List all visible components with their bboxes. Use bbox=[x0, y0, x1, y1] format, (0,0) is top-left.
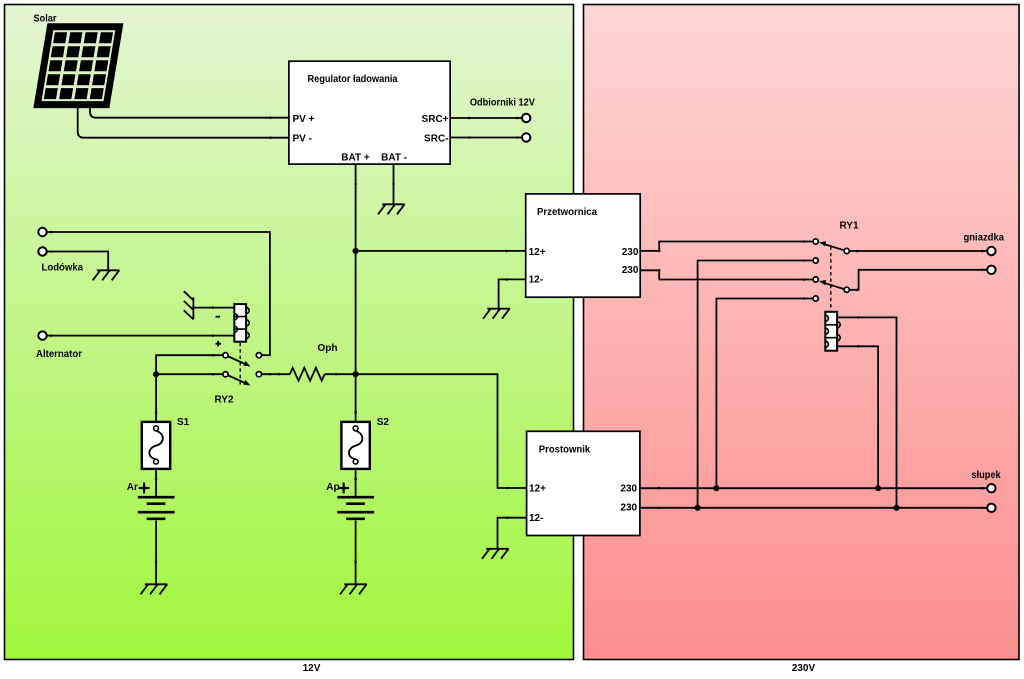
wire RY2 pivot top bbox=[156, 355, 223, 374]
ground under battery Ar bbox=[141, 584, 168, 594]
wire RY1 coil top to bus2 bbox=[837, 317, 896, 507]
svg-text:Ar: Ar bbox=[127, 482, 138, 493]
svg-text:RY1: RY1 bbox=[839, 220, 859, 231]
ground Prostownik 12- bbox=[482, 549, 509, 559]
svg-text:230: 230 bbox=[622, 247, 639, 258]
terminal slupek 1 bbox=[987, 484, 995, 492]
junction row4 on bus1 bbox=[713, 485, 719, 491]
svg-text:SRC+: SRC+ bbox=[422, 114, 449, 125]
svg-text:Regulator ładowania: Regulator ładowania bbox=[308, 74, 398, 85]
ground at RY2 coil (rotated) bbox=[184, 291, 194, 319]
svg-text:BAT +: BAT + bbox=[341, 152, 370, 163]
wire Lodowka minus to ground bbox=[47, 252, 108, 271]
dashed link RY2 bbox=[239, 343, 241, 385]
pin dots bbox=[50, 116, 984, 563]
wire bus 230 bottom to slupek bbox=[640, 507, 987, 509]
battery Ar bbox=[138, 497, 175, 519]
svg-text:S1: S1 bbox=[177, 417, 190, 428]
RY2 switch pole 2 bbox=[223, 372, 262, 386]
plus sign Ar bbox=[139, 483, 150, 494]
junction BAT+ to Przetwornica bbox=[353, 248, 359, 254]
wire PV- bbox=[78, 106, 289, 138]
svg-text:230V: 230V bbox=[792, 663, 816, 674]
svg-text:SRC-: SRC- bbox=[424, 133, 448, 144]
svg-text:BAT -: BAT - bbox=[381, 152, 407, 163]
svg-text:12+: 12+ bbox=[529, 247, 546, 258]
dashed link RY1 bbox=[830, 247, 832, 312]
ground under battery Ap bbox=[340, 584, 367, 594]
wire SRC+ to Odbiorniki bbox=[450, 117, 522, 119]
wire BAT+ vertical bbox=[355, 164, 357, 422]
junction RY2 pivots bbox=[153, 371, 159, 377]
solar panel PV1 bbox=[33, 23, 123, 108]
svg-text:12V: 12V bbox=[303, 663, 321, 674]
resistor Oph bbox=[290, 368, 325, 381]
RY1 contact row4 bbox=[813, 296, 818, 301]
svg-text:Lodówka: Lodówka bbox=[42, 263, 84, 274]
wire RY2 pivot bottom bbox=[156, 373, 223, 375]
junction coil bottom on bus1 bbox=[875, 485, 881, 491]
svg-text:Przetwornica: Przetwornica bbox=[537, 207, 597, 218]
wire bus 230 top to slupek bbox=[640, 487, 987, 489]
label plus at RY2 coil bbox=[216, 341, 222, 346]
junction coil top on bus2 bbox=[893, 505, 899, 511]
wire Alternator to coil bbox=[47, 335, 235, 337]
wire SRC- to Odbiorniki bbox=[450, 137, 522, 139]
terminal gniazdka 2 bbox=[987, 266, 995, 274]
ground under BAT- bbox=[378, 204, 405, 214]
battery Ap bbox=[337, 497, 374, 519]
svg-text:230: 230 bbox=[620, 483, 637, 494]
svg-text:12-: 12- bbox=[529, 513, 543, 524]
fuse S2 bbox=[341, 422, 369, 469]
wire node 12+ to Przetwornica bbox=[356, 250, 526, 252]
wire resistor to Prostownik 12+ bbox=[325, 374, 527, 488]
terminal Alternator bbox=[38, 331, 46, 339]
wire Przetwornica 230 top to RY1 contact1 bbox=[640, 242, 813, 251]
wire battery Ap to ground bbox=[355, 521, 357, 585]
wire Lodowka plus bbox=[47, 232, 270, 355]
RY1 switch pole 2 bbox=[813, 277, 849, 293]
svg-text:Odbiorniki 12V: Odbiorniki 12V bbox=[470, 98, 535, 109]
wire RY2 contact2 to resistor bbox=[261, 373, 290, 375]
wire coil RY2 to ground bbox=[193, 307, 234, 309]
ground under Lodowka bbox=[93, 270, 120, 280]
svg-text:RY2: RY2 bbox=[214, 395, 234, 406]
svg-text:PV -: PV - bbox=[293, 133, 312, 144]
regulator U1 box bbox=[289, 61, 450, 164]
wire RY1 contact4 down to bus1 bbox=[716, 299, 813, 489]
wire RY1 pivot1 to gniazdka bbox=[849, 250, 987, 252]
wire PV+ bbox=[90, 106, 289, 118]
terminal Lodowka plus bbox=[38, 228, 46, 236]
svg-text:Solar: Solar bbox=[34, 13, 57, 24]
wire RY1 pivot2 to gniazdka bbox=[849, 270, 987, 290]
fuse S1 bbox=[142, 422, 170, 469]
svg-text:230: 230 bbox=[620, 502, 637, 513]
wire to fuse S1 bbox=[155, 374, 157, 422]
plus sign Ap bbox=[338, 483, 349, 494]
relay coil RY1 bbox=[825, 312, 840, 351]
inverter Przetwornica box bbox=[526, 194, 641, 297]
svg-text:PV +: PV + bbox=[293, 114, 315, 125]
12V zone panel bbox=[5, 5, 574, 660]
junction Oph node bbox=[353, 371, 359, 377]
terminal Odbiorniki minus bbox=[522, 133, 530, 141]
svg-text:gniazdka: gniazdka bbox=[964, 232, 1005, 243]
230V zone panel bbox=[584, 5, 1020, 660]
label minus at RY2 coil bbox=[216, 316, 221, 318]
wire S1 to battery Ar bbox=[155, 469, 157, 496]
RY1 switch pole 1 bbox=[813, 239, 849, 254]
svg-text:S2: S2 bbox=[377, 417, 390, 428]
svg-text:Prostownik: Prostownik bbox=[539, 444, 591, 455]
svg-text:słupek: słupek bbox=[971, 470, 1001, 481]
terminal Odbiorniki plus bbox=[522, 114, 530, 122]
rectifier Prostownik box bbox=[527, 431, 640, 535]
svg-text:230: 230 bbox=[622, 265, 639, 276]
wire BAT- bbox=[393, 164, 395, 204]
wire S2 to battery Ap bbox=[355, 469, 357, 496]
svg-text:Alternator: Alternator bbox=[36, 349, 82, 360]
terminal slupek 2 bbox=[987, 504, 995, 512]
RY2 switch pole 1 bbox=[223, 353, 262, 367]
ground Przetwornica 12- bbox=[483, 309, 510, 319]
wire RY1 contact2 down to bus2 bbox=[698, 261, 814, 508]
svg-text:Ap: Ap bbox=[326, 482, 339, 493]
terminal Lodowka minus bbox=[38, 247, 46, 255]
wire Przetwornica 230 bottom to RY1 contact3 bbox=[640, 270, 813, 279]
relay coil RY2 bbox=[234, 304, 249, 342]
wire Prostownik 12- to ground bbox=[498, 518, 527, 549]
terminal gniazdka 1 bbox=[987, 247, 995, 255]
svg-text:Oph: Oph bbox=[318, 343, 338, 354]
svg-text:12+: 12+ bbox=[529, 483, 546, 494]
wire Przetwornica 12- to ground bbox=[499, 279, 526, 308]
wire RY1 coil bottom to bus1 bbox=[837, 346, 878, 488]
wire battery Ar to ground bbox=[155, 521, 157, 585]
svg-text:12-: 12- bbox=[529, 275, 543, 286]
RY1 contact row2 bbox=[813, 258, 818, 263]
junction row2 on bus2 bbox=[695, 505, 701, 511]
